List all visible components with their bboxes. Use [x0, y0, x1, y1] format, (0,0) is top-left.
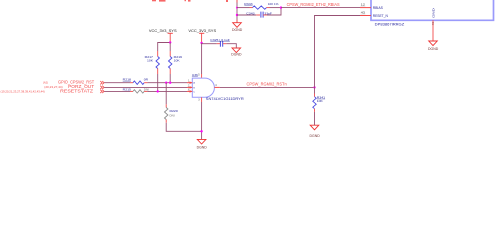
svg-text:GND: GND: [432, 7, 436, 18]
wire VCC2 down to gate pin5: [201, 43, 203, 74]
junction VCC2 node: [200, 42, 202, 44]
svg-text:RBIAS: RBIAS: [373, 6, 384, 10]
cut-off text marks at top edge: [152, 0, 228, 2]
gate output pin 4 stub: [214, 84, 219, 88]
junction RBIAS node top T: [236, 7, 238, 9]
svg-text:CPSW_RGMII2_ETH2_RBIAS: CPSW_RGMII2_ETH2_RBIAS: [287, 2, 340, 7]
junction gate ground / R220: [200, 130, 202, 132]
ground DGND (under RBIAS node): [232, 23, 243, 32]
resistor R219 10K (pull-up): [169, 43, 183, 83]
wire row3 from R215 to gate input pin6: [144, 90, 147, 92]
gate ground pin 2 stub: [198, 97, 201, 102]
svg-text:C343: C343: [246, 11, 255, 15]
junction R219 on row1: [169, 82, 171, 84]
svg-text:10K: 10K: [317, 99, 324, 103]
junction VCC node: [169, 41, 171, 43]
net name GPIO_CPSW2_RST with sheet ref (A2): [43, 80, 95, 85]
power symbol VCC_3V3_SYS (right): [188, 29, 216, 43]
wire C325 to ground: [223, 43, 226, 45]
IC pin 12 RBIAS stub: [360, 3, 384, 10]
wire RBIAS node vertical from top: [236, 0, 238, 23]
resistor R215 DNI (series, horizontal, not installed): [123, 88, 149, 94]
wire C343 to right node and up: [263, 14, 267, 16]
wire VCC2 to C325: [202, 43, 217, 45]
wire node up to RESET_N pin 43: [315, 16, 361, 88]
svg-text:10K 1%: 10K 1%: [268, 2, 279, 6]
resistor R343 10K 1% (horizontal): [244, 2, 278, 9]
svg-text:(19,20,21,23,27,38,39,41,42,43: (19,20,21,23,27,38,39,41,42,43,44): [1, 89, 45, 93]
ground DGND (under C325): [231, 48, 242, 56]
wire R341 to DGND: [314, 109, 316, 112]
svg-text:DP83867IRRGZ: DP83867IRRGZ: [375, 23, 405, 27]
op-amp style 3-input AND gate U36 SN74LVC1G11DRYR: [192, 73, 244, 101]
svg-text:VCC_3V3_SYS: VCC_3V3_SYS: [188, 29, 216, 33]
wire row3 from connector to R215: [104, 90, 130, 92]
resistor R218 0R (series, horizontal): [123, 78, 149, 85]
gate input pin 2 stub: [187, 84, 192, 88]
wire R217 bottom to row3: [157, 74, 159, 91]
wire row1 down to R220: [165, 83, 167, 105]
svg-text:RESETSTATZ: RESETSTATZ: [60, 88, 93, 93]
gate input pin name marks inside body: [193, 82, 195, 94]
resistor R220 DNI (pull-down, not installed): [165, 108, 179, 120]
svg-text:R218: R218: [123, 78, 132, 82]
junction R220 branch on row1: [165, 82, 167, 84]
resistor R341 10K (pull-down): [313, 95, 326, 108]
wire to R343: [237, 7, 250, 9]
ground DGND (under IC GND pin): [428, 41, 439, 51]
wire node down to R341: [314, 87, 316, 93]
svg-text:CPSW_RGMII2_RSTn: CPSW_RGMII2_RSTn: [247, 82, 288, 87]
IC pin 43 RESET_N stub: [360, 11, 388, 18]
wire VCC bar to R217 top: [158, 43, 171, 52]
IC GND pin (bottom): [431, 7, 435, 41]
junction R217 on row3: [157, 90, 159, 92]
wire to C343: [237, 14, 256, 16]
svg-text:VCC_3V3_SYS: VCC_3V3_SYS: [149, 29, 177, 33]
svg-text:(A2): (A2): [43, 81, 48, 85]
svg-text:DGND: DGND: [231, 52, 242, 56]
wire node to RBIAS pin 12: [281, 7, 360, 9]
svg-text:U36: U36: [192, 73, 198, 77]
svg-text:DGND: DGND: [310, 134, 321, 138]
ground DGND (under gate): [197, 139, 208, 149]
junction right RBIAS node: [280, 6, 282, 8]
capacitor C325 0.1uF: [210, 38, 230, 47]
wire R343 to right node: [270, 7, 282, 9]
junction RBIAS node C343 T: [236, 14, 238, 16]
wire R220 bottom to gate ground node: [165, 120, 167, 123]
wire gate output to node: [220, 86, 315, 88]
off-page connector row2 PORZ_OUT: [100, 86, 104, 89]
net name PORZ_OUT with sheet refs: [44, 84, 94, 89]
IC U? DP83867IRRGZ box (partial, extends off top): [371, 0, 494, 27]
svg-text:DNI: DNI: [170, 113, 175, 117]
svg-text:DGND: DGND: [232, 28, 243, 32]
svg-text:DGND: DGND: [197, 145, 208, 149]
svg-text:R215: R215: [123, 88, 132, 92]
svg-text:C325 | 0.1uF: C325 | 0.1uF: [210, 38, 230, 42]
net name RESETSTATZ with sheet refs: [1, 88, 94, 93]
wire row1 from R218 to gate input pin1: [144, 82, 147, 84]
power symbol VCC_3V3_SYS (left): [149, 29, 177, 42]
svg-text:10K: 10K: [174, 58, 181, 62]
svg-text:R220: R220: [170, 109, 179, 113]
ground DGND (under R341): [310, 125, 321, 138]
resistor R217 10K (pull-up): [145, 51, 160, 74]
gate input pin 1 stub: [187, 80, 192, 84]
svg-text:SN74LVC1G11DRYR: SN74LVC1G11DRYR: [206, 97, 244, 101]
off-page connector row3 RESETSTATZ: [100, 90, 104, 93]
wire gate ground to DGND: [201, 102, 203, 139]
junction output node: [313, 86, 315, 88]
off-page connector row1 GPIO_CPSW2_RST: [100, 81, 104, 84]
wire row2 from connector to gate input pin2: [104, 86, 187, 88]
capacitor C343 33pF (horizontal): [246, 11, 272, 17]
svg-text:RESET_N: RESET_N: [373, 14, 389, 18]
svg-text:R343: R343: [244, 2, 253, 6]
wire row1 from connector to R218: [104, 82, 130, 84]
gate input pin 6 stub: [187, 88, 192, 92]
svg-text:10K: 10K: [147, 58, 154, 62]
svg-text:DGND: DGND: [428, 47, 439, 51]
